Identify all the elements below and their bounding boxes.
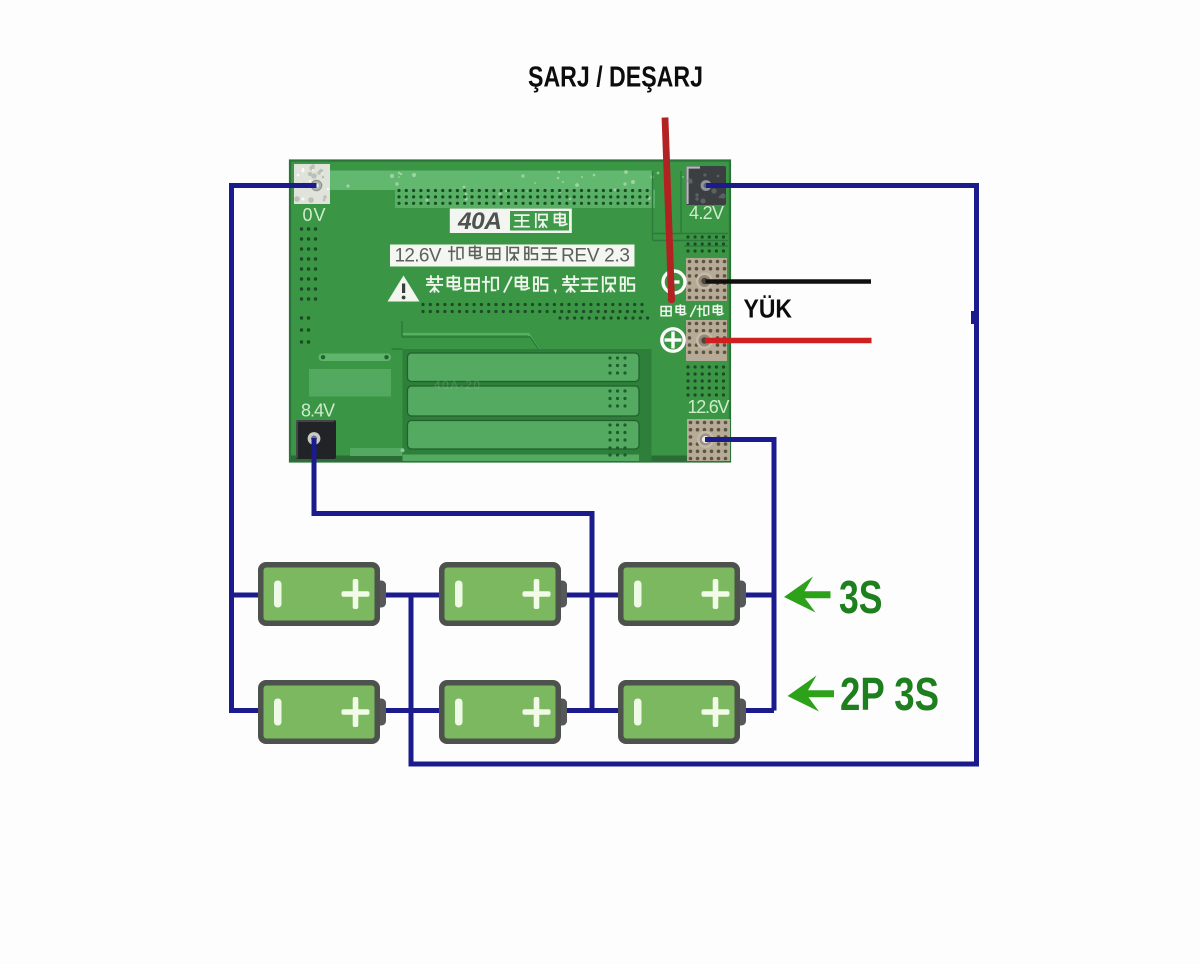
- silkscreen 12.6V protection board REV 2.3 label: [390, 245, 635, 267]
- silkscreen 40A label box: [450, 208, 572, 235]
- pad P- (charge/discharge minus): [686, 258, 727, 301]
- wire row1 cell1+ to cell2-: [378, 593, 441, 598]
- junction bump on right rail: [971, 311, 978, 324]
- via dots left column: [300, 227, 317, 300]
- pad 12.6V output: [687, 419, 730, 461]
- arrow 2P 3S: [788, 676, 835, 712]
- svg-text:12.6V: 12.6V: [688, 397, 730, 417]
- svg-text:2P 3S: 2P 3S: [840, 668, 939, 720]
- silkscreen warning chinese text: [427, 276, 634, 294]
- via dots right (below P+ pad): [686, 365, 725, 396]
- via dots on strips: [608, 356, 626, 374]
- battery cell B1 (row1): [258, 562, 386, 626]
- wire row2 cell2+ to cell3-: [557, 708, 621, 713]
- BMS protection board PCB body: [290, 161, 730, 462]
- wire 4.2V net: pad right, down right side, bottom, up to cell1+/cell2-: [411, 186, 977, 765]
- pad 8.4V (dark): [296, 420, 336, 459]
- black wire YUK negative: [706, 279, 872, 284]
- arrow 3S: [784, 577, 831, 613]
- svg-text:12.6V: 12.6V: [395, 246, 442, 267]
- wire 0V net: pad to left rail down to cells: [232, 186, 317, 711]
- battery cell B5 (row2): [439, 680, 567, 744]
- via dots mid band: [421, 303, 643, 313]
- svg-text:ŞARJ / DEŞARJ: ŞARJ / DEŞARJ: [528, 62, 703, 94]
- pad B- 0V (top-left, silver): [294, 164, 330, 204]
- symbol minus circle: [663, 271, 685, 293]
- warning triangle: [388, 276, 420, 302]
- pad P+ (charge/discharge plus): [686, 320, 727, 361]
- trace grooves top right: [653, 171, 729, 246]
- label charge/discharge chinese: [661, 305, 723, 317]
- battery cell B6 (row2): [618, 680, 746, 744]
- wire 0V branch to row1 cell1: [229, 593, 263, 598]
- copper pour left block: [309, 369, 391, 397]
- wire 8.4V net: pad down, across, down to cell2+/cell3-: [314, 438, 592, 711]
- 40A balance-charge chinese box: [510, 211, 569, 231]
- svg-text:REV 2.3: REV 2.3: [561, 246, 630, 267]
- red wire YUK positive: [705, 338, 872, 343]
- svg-text:4.2V: 4.2V: [689, 203, 724, 223]
- svg-text:0V: 0V: [303, 205, 326, 225]
- wire row1 cell2+ to cell3-: [557, 593, 621, 598]
- pad B+ 4.2V (top-right, dark): [686, 166, 726, 205]
- svg-text:8.4V: 8.4V: [301, 401, 335, 421]
- trace grooves lower: [402, 334, 540, 351]
- wire 12.6V net: pad right and down to cell3+: [705, 440, 774, 711]
- copper strip top: [302, 170, 698, 208]
- symbol plus circle: [662, 329, 684, 351]
- charge line red (SARJ/DESARJ pointer): [665, 118, 672, 299]
- svg-text:3S: 3S: [839, 571, 883, 623]
- battery cell B3 (row1): [618, 562, 746, 626]
- copper bar mid-left: [319, 354, 392, 362]
- battery cell B4 (row2): [258, 680, 386, 744]
- via dots band top: [397, 189, 648, 205]
- svg-text:40A: 40A: [457, 208, 502, 235]
- battery cell B2 (row1): [439, 562, 567, 626]
- copper strips lower: [403, 349, 652, 461]
- via dots right upper (above P- pad): [686, 235, 725, 252]
- svg-text:YÜK: YÜK: [744, 295, 793, 324]
- wire row2 cell1+ to cell2-: [378, 708, 441, 713]
